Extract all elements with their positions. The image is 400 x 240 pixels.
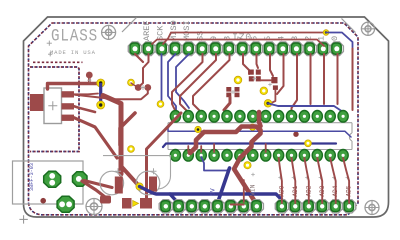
via V11 — [305, 140, 312, 147]
via V6 — [260, 87, 268, 95]
via V13 — [244, 162, 251, 169]
header pad top 4 — [169, 42, 182, 56]
stub r2c2 — [187, 146, 189, 152]
socket U1 pad r2c1 — [170, 150, 180, 162]
wire USB pin2 — [74, 106, 95, 112]
header pad top 12 — [276, 42, 289, 56]
socket U1 pad r2c5 — [222, 150, 232, 162]
wire jack to C1 — [84, 181, 112, 188]
wire D8 diagonal — [193, 54, 230, 112]
via V5 — [234, 76, 242, 84]
socket U1 pad r1c8 — [261, 111, 271, 123]
socket U1 pad r1c5 — [222, 111, 232, 123]
fiducial top-left — [102, 25, 116, 39]
wire D2 down — [310, 54, 312, 104]
header pad top 15 — [317, 42, 330, 56]
wire top-right bottom layer — [326, 33, 353, 48]
USB pin pad 2 — [62, 103, 75, 109]
regulator silk — [103, 156, 171, 189]
socket U1 pad r2c8 — [261, 150, 271, 162]
socket U1 pad r2c3 — [196, 150, 206, 162]
wire right vertical — [352, 48, 354, 110]
wire D7 stub — [243, 54, 249, 74]
svg-text:VIN: VIN — [250, 184, 257, 196]
resistor R1 — [271, 77, 277, 83]
via V10 — [249, 124, 255, 130]
header pad top 8 — [222, 42, 235, 56]
socket U1 pad r2c4 — [209, 150, 219, 162]
wire A3 — [317, 158, 322, 203]
via V1 — [128, 79, 135, 86]
socket U1 pad r2c7 — [248, 150, 258, 162]
via V8 — [323, 30, 329, 36]
board outline — [24, 17, 389, 217]
header pad pwr 5 — [211, 200, 224, 213]
header pad A3 — [316, 200, 329, 213]
socket U1 pad r1c11 — [299, 111, 309, 123]
header pad A0 — [275, 200, 288, 213]
socket U1 pad r2c9 — [274, 150, 284, 162]
socket U1 pad r1c10 — [286, 111, 296, 123]
wire bottom-layer vertical — [99, 83, 102, 105]
wire jack to D1 — [82, 181, 107, 199]
header pad A1 — [289, 200, 302, 213]
via V2 — [97, 79, 105, 87]
socket U1 pad r1c14 — [338, 111, 348, 123]
fiducial bottom-right — [365, 201, 379, 215]
svg-text:MADE IN USA: MADE IN USA — [50, 49, 96, 56]
power jack X2 outline — [13, 161, 84, 204]
socket U1 pad r1c4 — [209, 111, 219, 123]
crystal Q1 pad 1 — [135, 84, 142, 91]
socket U1 pad r2c12 — [312, 150, 322, 162]
socket U1 pad r2c2 — [183, 150, 193, 162]
wire A0 — [279, 158, 282, 203]
wire A5 — [343, 158, 349, 203]
header pad pwr 1 — [159, 200, 172, 213]
wire bus131 — [168, 124, 351, 137]
header pad top 7 — [209, 42, 222, 56]
jack pad 2 — [73, 172, 88, 187]
wire R1 link — [261, 79, 272, 81]
wire snake left — [190, 132, 204, 153]
capacitor C4 — [249, 70, 254, 75]
USB pin pad 3 — [62, 115, 75, 121]
stub r2c3 — [200, 146, 202, 152]
wire C5 down — [224, 98, 230, 111]
via V14 — [128, 146, 135, 153]
svg-text:MOSI: MOSI — [182, 20, 192, 41]
wire Q1 to via — [131, 83, 138, 88]
wire D1 down — [323, 54, 325, 104]
wire A1 — [292, 158, 296, 203]
logo text GLASS — [51, 26, 98, 46]
header pad pwr 8 — [250, 200, 263, 213]
silk corner mark right of header — [342, 19, 356, 33]
socket U1 pad r1c2 — [183, 111, 193, 123]
svg-text:0: 0 — [330, 36, 340, 41]
wire USB D+ — [74, 93, 98, 96]
svg-text:38FF-3-03: 38FF-3-03 — [29, 163, 35, 191]
wire GND bus bottom — [140, 187, 283, 205]
wire A4 — [330, 158, 336, 203]
USB keepout dashed — [33, 61, 83, 63]
socket U1 pad r2c6 — [235, 150, 245, 162]
jack pad 1 — [44, 171, 61, 187]
header pad A5 — [343, 200, 356, 213]
wire pad7 up — [243, 180, 245, 202]
wire pad2 down — [139, 54, 149, 87]
capacitor C1 outline — [100, 171, 124, 195]
wire to C1 top — [120, 113, 135, 145]
socket U1 pad r1c1 — [170, 111, 180, 123]
wire D9 diagonal — [180, 54, 216, 112]
header pad A2 — [302, 200, 315, 213]
wire to C2 — [147, 113, 182, 200]
header pad A4 — [329, 200, 342, 213]
header pad pwr 6 — [224, 200, 237, 213]
jack pad 3 — [57, 196, 74, 212]
socket U1 pad r1c3 — [196, 111, 206, 123]
wire bus to pad2 — [170, 194, 179, 204]
header pad pwr 3 — [185, 200, 198, 213]
wire A2 — [304, 158, 308, 203]
USB connector X1 shield pad left — [30, 94, 44, 111]
socket U1 pad r1c9 — [274, 111, 284, 123]
wire snake top — [259, 112, 261, 126]
wire net D0 horiz — [163, 33, 325, 45]
fiducial top-right — [361, 22, 374, 35]
IC socket U1 outline — [168, 123, 352, 150]
header pad pwr 4 — [198, 200, 211, 213]
wire D3 down — [292, 54, 298, 112]
capacitor C2 outline — [136, 171, 160, 195]
socket U1 pad r1c13 — [325, 111, 335, 123]
wire bus143 — [163, 144, 336, 148]
diode D1 pad C — [140, 198, 152, 209]
via V12 — [136, 183, 143, 190]
wire GND link — [231, 204, 244, 206]
header pad top 1 — [128, 42, 141, 56]
header pad top 11 — [263, 42, 276, 56]
fiducial bottom-left — [86, 199, 102, 215]
socket U1 pad r2c13 — [325, 150, 335, 162]
svg-text:MISO: MISO — [169, 20, 179, 41]
header pad top 9 — [236, 42, 249, 56]
wire MOSI bottom layer — [176, 54, 189, 108]
via V7 — [264, 100, 272, 108]
svg-text:SCK: SCK — [155, 25, 165, 41]
wire SCK bottom layer — [161, 54, 162, 104]
trace blob — [100, 196, 111, 204]
test point TP1 — [86, 72, 93, 79]
socket U1 pad r2c14 — [338, 150, 348, 162]
silk corner mark left of header — [122, 18, 137, 33]
header pad top 3 — [155, 42, 168, 56]
socket U1 pad r1c12 — [312, 111, 322, 123]
wire net D1 horiz — [152, 40, 324, 47]
via V16 — [40, 198, 46, 204]
via V9 — [195, 126, 201, 132]
header pad top 2 — [142, 42, 155, 56]
header pad top 16 — [330, 42, 343, 56]
socket U1 pad r1c7 — [248, 111, 258, 123]
via V15 — [293, 132, 298, 137]
wire D0 down — [337, 54, 339, 104]
wire D4 stub — [277, 54, 284, 94]
wire C1 to via — [121, 166, 140, 187]
header pad top 13 — [290, 42, 303, 56]
stub r2c4 — [213, 144, 215, 152]
svg-text:5V: 5V — [210, 188, 217, 196]
capacitor C5 — [226, 87, 231, 92]
keepout dashed border — [29, 23, 359, 215]
crystal Q1 pad 2 — [144, 84, 151, 91]
wire 5V to C1 — [103, 96, 121, 175]
wire bottom bus to pin14 — [268, 103, 343, 116]
svg-text:AREF: AREF — [142, 20, 152, 41]
USB pin pad 1 — [62, 91, 75, 97]
header pad top 14 — [303, 42, 316, 56]
header pad pwr 7 — [237, 200, 250, 213]
diode D1 marker — [133, 200, 139, 206]
header pad pwr 2 — [172, 200, 185, 213]
wire R1 to via — [271, 90, 276, 103]
header pad top 10 — [249, 42, 262, 56]
stub r2c8 — [265, 144, 267, 152]
socket U1 pad r2c10 — [286, 150, 296, 162]
socket U1 pad r2c11 — [299, 150, 309, 162]
svg-text:GLASS: GLASS — [51, 26, 98, 46]
wire VIN snake — [204, 127, 261, 205]
diode D1 pad A — [122, 198, 132, 209]
USB connector X1 body — [44, 88, 62, 124]
via V4 — [157, 101, 164, 108]
wire USB GND — [74, 118, 117, 158]
wire bus to 5V pad — [218, 168, 230, 203]
header pad top 6 — [196, 42, 209, 56]
wire MISO bottom layer — [168, 54, 176, 111]
wire AREF stub — [135, 54, 143, 62]
via V3 — [97, 101, 105, 109]
origin cross marker — [19, 215, 27, 223]
wire D6 stub — [257, 54, 259, 68]
socket U1 pad r1c6 — [235, 111, 245, 123]
wire SS diagonal — [172, 54, 203, 111]
capacitor C1 pad — [115, 177, 123, 194]
wire A marker — [201, 157, 229, 171]
wire D5 stub — [270, 54, 273, 76]
capacitor C2 pad — [149, 177, 157, 192]
wire USB D- — [75, 89, 148, 99]
header pad top 5 — [182, 42, 195, 56]
wire USB VBUS to via — [48, 84, 99, 90]
